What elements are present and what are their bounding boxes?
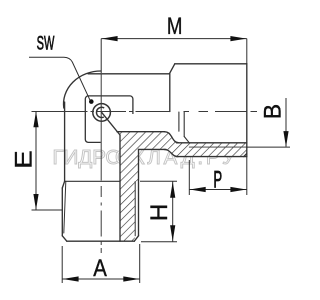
arrowhead B [283,131,288,147]
bore wall right of vertical passage [119,135,121,241]
stud bottom edge [67,240,135,242]
top edge of mid body [88,73,170,75]
dimension M [101,39,247,73]
arrowhead M left [102,36,118,41]
section diagonal cut line [102,113,120,135]
leader line SW [29,57,90,101]
dimension H [140,181,177,241]
leader dot SW [89,99,94,104]
cone to female thread [165,132,179,143]
horizontal centerline [32,111,258,113]
thread root line left (taper) [64,182,66,234]
stud left crest [61,188,63,236]
arrowhead P right [230,187,246,192]
svg-text:SW: SW [37,33,55,54]
svg-text:M: M [167,13,183,40]
arrowhead E top [33,111,38,127]
arrowhead H bottom [170,225,175,241]
elbow block left edge [64,102,66,181]
socket bottom outer [176,156,247,158]
female thread major thin line [189,146,247,148]
svg-text:ГИДРО: ГИДРО [53,146,122,169]
socket top edge [175,63,247,65]
face bottom chamfer [244,153,247,156]
thread runout left [62,181,64,188]
socket right face [246,64,248,157]
dimension E [32,209,63,211]
dimension P [189,157,247,195]
socket face left (top half only) [169,74,171,112]
bore bottom of horizontal passage [117,131,165,133]
stud right tip chamfer [134,236,138,241]
dimension B [247,146,290,148]
outer step socket to mid body [164,149,178,156]
chamfer to socket top [170,64,175,74]
mid body bottom [139,148,167,150]
vertical centerline [100,74,102,253]
arrowhead A left [63,276,79,281]
svg-text:E: E [11,150,37,168]
dimension A [62,244,140,283]
rounded corner arc [64,71,101,108]
body outline [62,64,247,241]
arrowhead P left [190,187,206,192]
arrowhead H top [170,182,175,198]
stud left tip chamfer [62,236,67,241]
svg-text:H: H [146,204,173,221]
thread end chamfer [184,137,189,143]
svg-text:A: A [93,255,107,282]
block bottom edge [65,180,120,182]
svg-text:B: B [259,104,286,119]
svg-text:P: P [213,166,222,193]
female thread end line [183,112,185,137]
hex side-view square [85,96,133,142]
block right/stud right crest [138,149,140,235]
pilot bore end line [178,112,180,131]
corner circle inner arc [97,107,105,117]
arrowhead E bottom [33,194,38,210]
section hatch region (cut wall of elbow) [102,113,247,242]
thread root line right [134,182,136,236]
arrowhead M right [230,36,246,41]
corner circle outer [93,104,111,122]
female thread minor line [177,142,247,144]
arrowhead A right [123,276,139,281]
